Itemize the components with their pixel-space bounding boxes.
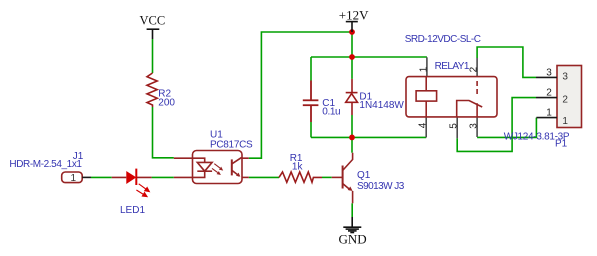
svg-text:1: 1 <box>71 173 77 184</box>
svg-text:LED1: LED1 <box>120 205 145 216</box>
svg-text:4: 4 <box>418 122 429 128</box>
svg-text:P1: P1 <box>555 139 568 150</box>
svg-text:VCC: VCC <box>140 14 166 28</box>
svg-text:0.1u: 0.1u <box>322 106 340 117</box>
svg-text:SRD-12VDC-SL-C: SRD-12VDC-SL-C <box>405 34 481 45</box>
svg-text:3: 3 <box>562 71 568 82</box>
svg-text:5: 5 <box>449 123 460 129</box>
svg-text:S9013W J3: S9013W J3 <box>357 181 405 192</box>
svg-text:Q1: Q1 <box>357 170 371 181</box>
svg-text:3: 3 <box>469 123 480 129</box>
svg-text:GND: GND <box>339 232 367 247</box>
svg-text:1N4148W: 1N4148W <box>359 100 404 111</box>
svg-text:1: 1 <box>562 116 568 127</box>
svg-text:3: 3 <box>546 67 552 78</box>
svg-text:RELAY1: RELAY1 <box>435 61 470 72</box>
svg-text:1: 1 <box>418 66 429 72</box>
svg-text:HDR-M-2.54_1x1: HDR-M-2.54_1x1 <box>9 159 82 170</box>
svg-text:2: 2 <box>562 94 568 105</box>
svg-text:200: 200 <box>158 97 175 108</box>
svg-text:+12V: +12V <box>339 7 369 22</box>
svg-text:PC817CS: PC817CS <box>210 140 253 151</box>
svg-text:1k: 1k <box>292 162 304 173</box>
svg-text:1: 1 <box>546 108 552 119</box>
svg-text:2: 2 <box>546 88 552 99</box>
svg-text:2: 2 <box>469 66 480 72</box>
